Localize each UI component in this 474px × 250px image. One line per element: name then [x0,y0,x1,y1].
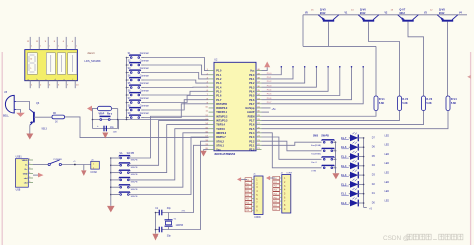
pin 8 J1 port [252,205,254,207]
svg-text:4: 4 [29,172,30,174]
pin 5 J1 port [252,194,254,196]
wire XTAL1 [162,145,209,212]
svg-text:P0.7: P0.7 [249,103,255,106]
svg-text:P2.7: P2.7 [249,120,255,123]
svg-text:R-V1: R-V1 [379,98,385,101]
switch K3 [323,158,325,160]
switch S7 [126,102,128,104]
svg-text:1K: 1K [55,122,58,124]
wire keypad S5 to MCU [144,86,209,88]
svg-text:2: 2 [29,163,30,165]
pin 39 right MCU [256,74,262,76]
svg-text:P0.4: P0.4 [249,90,255,93]
pin 8 left MCU [209,99,214,101]
svg-text:LED: LED [385,182,390,184]
pin 27 right MCU [256,124,262,126]
connector J1 CON9 [254,176,263,215]
ground reset capacitor [102,133,108,139]
svg-text:c: c [46,79,47,81]
svg-text:LED: LED [385,135,390,137]
pin 2 J1 port [252,182,254,184]
pin 9 left MCU [209,103,214,105]
transistor Q7 9012 [402,20,413,22]
svg-text:P1.5: P1.5 [216,90,222,93]
pin 34 right MCU [256,95,262,97]
switch K2 [323,150,325,152]
svg-text:9012: 9012 [439,12,445,15]
svg-text:5: 5 [30,68,31,70]
wire buzzer to Q6 collector [16,102,30,110]
svg-text:LED: LED [385,145,390,147]
svg-text:GND: GND [23,173,28,175]
display DS1 bottom pins [29,81,31,89]
svg-text:P0.6: P0.6 [267,98,272,100]
svg-text:P2.5: P2.5 [249,128,255,131]
svg-text:ALE/P: ALE/P [247,111,255,114]
switch S3 [126,72,128,74]
wire Q6 base [34,116,52,118]
wire keypad S9 to MCU [144,104,209,118]
switch S10 reset button [100,119,102,121]
svg-text:P04: P04 [274,193,277,195]
power VCC arrow MCU [264,62,270,68]
svg-text:Common: Common [140,113,150,115]
wire MCU to key K3 [262,137,322,159]
pin 40 right MCU [256,70,262,72]
svg-text:9013: 9013 [42,127,48,130]
pin 10 left MCU [209,107,214,109]
pin 1 left MCU [209,70,214,72]
pin 6 J2 port [280,196,282,198]
pin 36 right MCU [256,86,262,88]
svg-text:P0.6: P0.6 [249,99,255,102]
pin 32 right MCU [256,103,262,105]
svg-text:1: 1 [31,46,32,48]
svg-text:SA: SA [119,152,123,155]
connector J3 CON2 [91,161,100,169]
svg-text:9012: 9012 [320,12,326,15]
switch S8 [126,109,128,111]
node bus keys right [335,142,337,173]
svg-text:P14: P14 [246,195,249,197]
wire EA/VPP stub [262,107,271,109]
svg-text:R-V2: R-V2 [402,98,408,101]
switch S9 [126,117,128,119]
svg-text:VR-P: VR-P [99,113,105,116]
node junction reset bus [126,119,128,121]
svg-text:d: d [55,79,56,81]
svg-text:P1.3: P1.3 [216,82,222,85]
svg-text:Common: Common [140,68,150,70]
svg-text:USB1: USB1 [16,157,23,159]
wire keypad S6 to MCU [144,91,209,95]
svg-text:Yon(RGB): Yon(RGB) [311,154,321,156]
svg-text:3: 3 [29,168,30,170]
pin 2 USB1 [28,164,33,166]
svg-text:Common: Common [140,76,150,78]
svg-text:6: 6 [29,181,30,183]
svg-text:5: 5 [29,177,30,179]
svg-text:P0.5: P0.5 [267,94,272,96]
svg-text:P15: P15 [246,199,249,201]
svg-text:LED: LED [385,154,390,156]
pin 31 right MCU [256,107,262,109]
svg-text:SW-PB: SW-PB [131,196,138,198]
wire rail drop left [302,15,304,47]
svg-text:P2.1: P2.1 [249,144,255,147]
svg-text:5.6K: 5.6K [426,102,431,105]
node bus keypad2 common left [110,158,112,206]
wire P2 row to resistor R-V1 [262,111,377,117]
pin 16 left MCU [209,132,214,134]
svg-text:P05: P05 [274,197,277,199]
connector J2 CON9 [282,175,291,214]
wire keypad S7 to MCU [144,96,209,103]
microcontroller U2 89C51/AT89S52 [214,62,256,151]
svg-text:CON9: CON9 [286,172,293,174]
pin 9 J1 port [252,209,254,211]
wire ALE stub [262,111,270,113]
switch S1 [126,57,128,59]
node bus keypad common left [126,58,128,120]
svg-text:Common: Common [140,61,150,63]
pin 4 left MCU [209,82,214,84]
svg-text:P0.1: P0.1 [249,78,255,81]
svg-text:CON9: CON9 [254,217,261,219]
wire bell base net to MCU P3.7 [65,117,209,138]
power arrow J2 [266,176,270,180]
wire P2 row to resistor R-V4 [262,111,449,129]
pin 7 J1 port [252,202,254,204]
svg-text:1: 1 [58,46,59,48]
switch S4 [126,79,128,81]
svg-text:WR/P3.6: WR/P3.6 [216,132,227,135]
pin 8 J2 port [280,204,282,206]
pin 38 right MCU [256,78,262,80]
svg-text:P06: P06 [274,201,277,203]
svg-text:P03: P03 [274,190,277,192]
resistor R-V2 5.6K [398,96,402,111]
svg-text:INT1/P3.3: INT1/P3.3 [216,120,228,123]
pin 25 right MCU [256,132,262,134]
pin 7 left MCU [209,95,214,97]
switch W5 [110,186,112,188]
switch S5 [126,87,128,89]
wire P2 row to resistor R-V2 [262,111,400,121]
wire MCU to key K1 [262,142,322,145]
pin 29 right MCU [256,115,262,117]
svg-text:P0.0: P0.0 [267,73,272,75]
pin 9 J2 port [280,208,282,210]
border pink right [470,52,472,245]
pin 30 right MCU [256,111,262,113]
svg-text:O 9N: O 9N [311,171,316,173]
svg-text:Common: Common [140,98,150,100]
svg-text:1: 1 [40,46,41,48]
svg-text:dianzi: dianzi [87,51,94,55]
svg-text:SW5: SW5 [313,136,319,138]
svg-text:P0.5: P0.5 [249,95,255,98]
switch K1 [323,141,325,143]
crystal Y1 12MHZ [168,213,170,220]
svg-text:Kon(RGB): Kon(RGB) [311,145,321,147]
display DS1 top pins [29,37,31,50]
pin 4 J2 port [280,189,282,191]
svg-text:SW-PB: SW-PB [131,160,138,162]
svg-text:P1.7: P1.7 [216,99,222,102]
wire P0.0 fan [262,67,282,75]
wire Q6 emitter [29,125,31,133]
pin 1 USB1 [28,159,33,161]
wire P0.1 fan [262,67,294,79]
ground Q6 emitter [26,134,33,140]
svg-text:P08: P08 [274,209,277,211]
transistor Q5 9012 [323,20,334,22]
wire P0.2 fan [262,67,305,83]
pin 7 J2 port [280,200,282,202]
svg-text:BELL: BELL [3,115,10,118]
svg-text:P13: P13 [246,191,249,193]
wire P0.5 fan [262,67,340,96]
wire keypad2 W3 to MCU [128,125,208,173]
pin 26 right MCU [256,128,262,130]
wire keypad S2 to MCU [144,65,209,75]
pin 35 right MCU [256,90,262,92]
svg-text:1: 1 [76,46,77,48]
wire Vcc pin to power arrow [262,67,268,70]
svg-text:P01: P01 [274,182,277,184]
pin 17 left MCU [209,136,214,138]
svg-text:CON2: CON2 [90,172,97,174]
svg-text:P16: P16 [246,203,249,205]
power arrow USB [38,173,44,178]
pin 5 USB1 [28,177,33,179]
wire keypad2 W2 to MCU [128,120,208,165]
capacitor C1 30p [158,210,160,216]
pin 6 J1 port [252,198,254,200]
svg-text:T1/P3.5: T1/P3.5 [216,128,225,131]
svg-text:P07: P07 [274,205,277,207]
svg-text:1: 1 [67,46,68,48]
pin 23 right MCU [256,140,262,142]
display DS1 digit segments [29,55,72,72]
svg-text:LED: LED [385,163,390,165]
svg-text:Vcc: Vcc [250,70,255,73]
wire P0.3 fan [262,67,317,87]
svg-text:P02: P02 [274,186,277,188]
resistor R-V1 5.6K [374,96,378,111]
svg-text:e: e [64,79,65,81]
pin 1 J1 port [252,178,254,180]
svg-text:Common: Common [140,53,150,55]
border pink left [1,52,3,245]
wire T4 collector to R-V4 [447,22,449,96]
svg-text:12MHZ: 12MHZ [176,225,184,227]
svg-text:LED: LED [385,191,390,193]
svg-text:5.6K: 5.6K [379,102,384,105]
pin 24 right MCU [256,136,262,138]
svg-text:CSDN @: CSDN @ [383,235,409,242]
svg-text:VBUS: VBUS [22,160,28,162]
svg-text:SW-PB: SW-PB [321,136,329,138]
wire XTAL2 [162,141,209,229]
svg-text:EA/Vpp: EA/Vpp [246,107,255,110]
wire MCU to key K4 [262,133,322,168]
wire T1 collector to R-V1 [328,22,330,47]
svg-text:R-V4: R-V4 [451,98,457,101]
switch S-P POWER [48,163,50,165]
pin 22 right MCU [256,144,262,146]
pin 3 USB1 [28,168,33,170]
wire P0.7 fan [262,67,364,104]
svg-text:9012: 9012 [360,12,366,15]
pin 14 left MCU [209,124,214,126]
wire reset node [112,108,118,110]
wire T2 collector to R-V2 [369,22,400,96]
ground keypad2 bus [107,206,115,213]
svg-text:P18: P18 [246,210,249,212]
pin 4 J1 port [252,190,254,192]
svg-text:T0/P3.4: T0/P3.4 [216,124,225,127]
wire T3 collector to R-V3 [408,22,424,96]
pin 28 right MCU [256,119,262,121]
node bus LED cathodes [363,138,365,208]
svg-text:P0.2: P0.2 [267,81,272,83]
wire keypad2 W5 to MCU [128,133,208,187]
svg-text:Re-z: Re-z [107,113,113,116]
switch W6 [110,194,112,196]
svg-text:XTAL1: XTAL1 [216,144,224,147]
connector USB1 [15,159,28,188]
switch S6 [126,94,128,96]
svg-text:5.6K: 5.6K [402,102,407,105]
svg-text:LDS_5461BK: LDS_5461BK [84,59,100,63]
svg-text:P0.2: P0.2 [249,82,255,85]
power arrow J1 [237,177,241,181]
svg-text:P0.0: P0.0 [249,74,255,77]
svg-text:Common: Common [140,91,150,93]
pin 2 left MCU [209,74,214,76]
wire crystal ground bus [155,213,157,234]
pin 15 left MCU [209,128,214,130]
pin 1 J2 port [280,177,282,179]
svg-text:89C51/AT89S52: 89C51/AT89S52 [215,152,236,156]
switch S2 [126,64,128,66]
capacitor C3 10u [103,126,105,132]
ground power rail [81,170,86,176]
wire keypad S4 to MCU [144,80,209,83]
wire keypad S3 to MCU [144,73,209,79]
transistor Q6 9012 [363,20,374,22]
svg-text:P2.0: P2.0 [249,149,255,152]
svg-text:SW-PB: SW-PB [127,153,135,155]
pin 5 J2 port [280,192,282,194]
svg-text:P1.4: P1.4 [216,86,222,89]
svg-text:P1.0: P1.0 [216,70,222,73]
wire MCU to key K2 [262,141,322,151]
svg-text:R-V3: R-V3 [426,98,432,101]
pin 4 USB1 [28,173,33,175]
pin 6 USB1 [28,182,33,184]
wire reset RST net to MCU [118,119,209,121]
svg-text:USB: USB [16,190,21,192]
pin 21 right MCU [256,148,262,150]
power VCC arrow reset [87,106,92,112]
pin 3 J2 port [280,185,282,187]
wire keypad S8 to MCU [144,100,209,110]
svg-text:P12: P12 [246,187,249,189]
svg-text:PSEN: PSEN [248,115,255,118]
svg-text:1: 1 [29,159,30,161]
svg-text:9012: 9012 [399,12,405,15]
transistor Q8 9012 [442,20,453,22]
resistor R-V4 5.6K [446,96,450,111]
switch K4 [323,167,325,169]
pin 12 left MCU [209,115,214,117]
pin 3 J1 port [252,186,254,188]
capacitor C2 30p [158,227,160,233]
switch W1 [110,157,112,159]
svg-text:Vss: Vss [216,149,221,152]
svg-text:SW-PB: SW-PB [131,167,138,169]
switch W3 [110,172,112,174]
svg-text:P17: P17 [246,206,249,208]
resistor VR1 reset pull-up [98,106,112,110]
pin 6 left MCU [209,90,214,92]
switch W4 [110,179,112,181]
svg-text:D-: D- [25,164,28,166]
svg-text:LED: LED [385,200,390,202]
svg-text:P1.2: P1.2 [216,78,222,81]
pin 11 left MCU [209,111,214,113]
svg-text:P2.3: P2.3 [249,136,255,139]
wire keypad2 W4 to MCU [128,129,208,180]
resistor R-V3 5.6K [422,96,426,111]
svg-text:XTAL2: XTAL2 [216,140,224,143]
svg-text:Yon O: Yon O [311,162,317,164]
wire stub net 10B [118,120,120,130]
transistor Q6 9013 [33,112,35,123]
ground buzzer pin [16,110,21,113]
resistor R6 1K [52,115,65,119]
svg-text:5.6K: 5.6K [451,102,456,105]
wire keypad2 W1 to MCU [128,116,208,158]
svg-text:TXD/P3.1: TXD/P3.1 [216,111,227,114]
wire P2 row to resistor R-V3 [262,111,424,125]
svg-text:10: 10 [30,59,32,61]
svg-text:RST/VPD: RST/VPD [216,103,227,106]
svg-text:P0.4: P0.4 [267,89,272,91]
svg-text:P2.2: P2.2 [249,140,255,143]
svg-text:P0.3: P0.3 [267,85,272,87]
svg-text:P2.6: P2.6 [249,124,255,127]
wire keypad S1 to MCU [144,58,209,71]
svg-text:10B: 10B [113,132,117,134]
pin 18 left MCU [209,140,214,142]
svg-text:POWER: POWER [54,159,63,161]
wire USB power to switch and CON2 [33,164,48,166]
svg-text:P2.4: P2.4 [249,132,255,135]
wire P0.6 fan [262,67,352,100]
wire power gnd stub [83,165,85,171]
pin 37 right MCU [256,82,262,84]
svg-text:SW-PB: SW-PB [131,174,138,176]
switch W2 [110,165,112,167]
svg-text:P11: P11 [246,183,249,185]
ground MCU Vss [204,148,209,150]
ground crystal [152,234,158,241]
marker red right edge [467,75,471,79]
